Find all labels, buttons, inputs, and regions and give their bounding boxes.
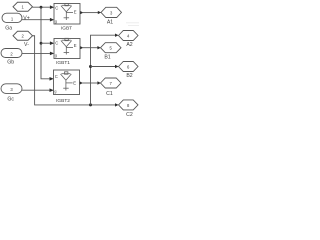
wire Ga to IGBT in2	[22, 19, 52, 21]
svg-text:g: g	[55, 19, 57, 24]
svg-text:A2: A2	[126, 42, 132, 48]
subsystem block U3 IGBT2	[54, 70, 80, 95]
port hexagon C1 (7)	[101, 78, 122, 88]
svg-text:Gc: Gc	[7, 97, 14, 103]
svg-text:IGBT2: IGBT2	[56, 98, 70, 104]
IGBT output port arrow	[80, 11, 83, 14]
inport oval Gc (3)	[1, 84, 22, 94]
port hexagon B1 (5)	[101, 43, 122, 53]
wire IGBT2 E to C1	[83, 82, 98, 84]
arrowhead into IGBT2 in1	[50, 77, 54, 81]
svg-text:g: g	[54, 89, 56, 94]
junction node to B2	[89, 65, 92, 68]
svg-text:E: E	[73, 80, 76, 85]
svg-text:Gb: Gb	[7, 60, 14, 66]
wire Gc to IGBT2 in2	[22, 89, 51, 91]
port hexagon A2 (4)	[119, 31, 139, 41]
svg-text:Ga: Ga	[5, 26, 12, 32]
svg-text:IGBT: IGBT	[61, 26, 72, 32]
wire IGBT E to A1	[83, 12, 98, 14]
junction node on V+ wire	[40, 6, 43, 9]
svg-text:B2: B2	[126, 73, 132, 79]
arrowhead into C2	[115, 103, 119, 106]
wire V+ rail to IGBT1 in1	[41, 42, 52, 44]
IGBT2 output port arrow	[80, 81, 83, 84]
IGBT icon drawing	[61, 3, 73, 20]
port hexagon V- (2)	[13, 31, 33, 40]
junction node V+ rail to IGBT1	[40, 42, 43, 45]
arrowhead into A2	[115, 34, 119, 37]
port hexagon A1 (3)	[101, 7, 122, 17]
svg-text:B1: B1	[104, 54, 110, 60]
svg-text:A1: A1	[107, 19, 113, 25]
svg-text:V-: V-	[24, 42, 29, 48]
inport oval Gb (2)	[1, 49, 22, 58]
wire V+ to IGBT in1	[33, 6, 52, 8]
port hexagon B2 (6)	[119, 62, 139, 72]
junction node V- rail / right vertical	[89, 103, 92, 106]
IGBT2 icon drawing	[61, 72, 73, 91]
IGBT1 output port arrow	[80, 46, 83, 49]
svg-text:C2: C2	[126, 112, 133, 118]
svg-text:g: g	[55, 53, 57, 58]
wire to B2	[91, 66, 116, 68]
arrowhead into IGBT in1	[50, 5, 54, 9]
subsystem block U2 IGBT1	[54, 39, 80, 59]
faint marks	[126, 23, 139, 26]
svg-text:C: C	[55, 40, 58, 45]
wire Gb to IGBT1 in2	[22, 52, 52, 54]
svg-text:E: E	[74, 43, 77, 48]
svg-text:C: C	[55, 74, 58, 79]
inport oval Ga (1)	[2, 13, 22, 22]
svg-text:C1: C1	[106, 91, 113, 97]
wire IGBT1 E to B1	[83, 47, 98, 49]
IGBT1 icon drawing	[61, 38, 73, 54]
port hexagon C2 (8)	[119, 100, 139, 110]
svg-text:E: E	[74, 10, 77, 15]
V+ vertical rail wire	[41, 7, 51, 79]
subsystem block U1 IGBT	[54, 4, 80, 25]
right vertical rail wire	[91, 35, 116, 105]
svg-text:IGBT1: IGBT1	[56, 60, 70, 66]
port hexagon V+ (1)	[13, 2, 33, 11]
V- rail wire down and along bottom to C2	[33, 36, 116, 105]
svg-text:C: C	[55, 5, 58, 10]
svg-text:V+: V+	[23, 16, 30, 22]
